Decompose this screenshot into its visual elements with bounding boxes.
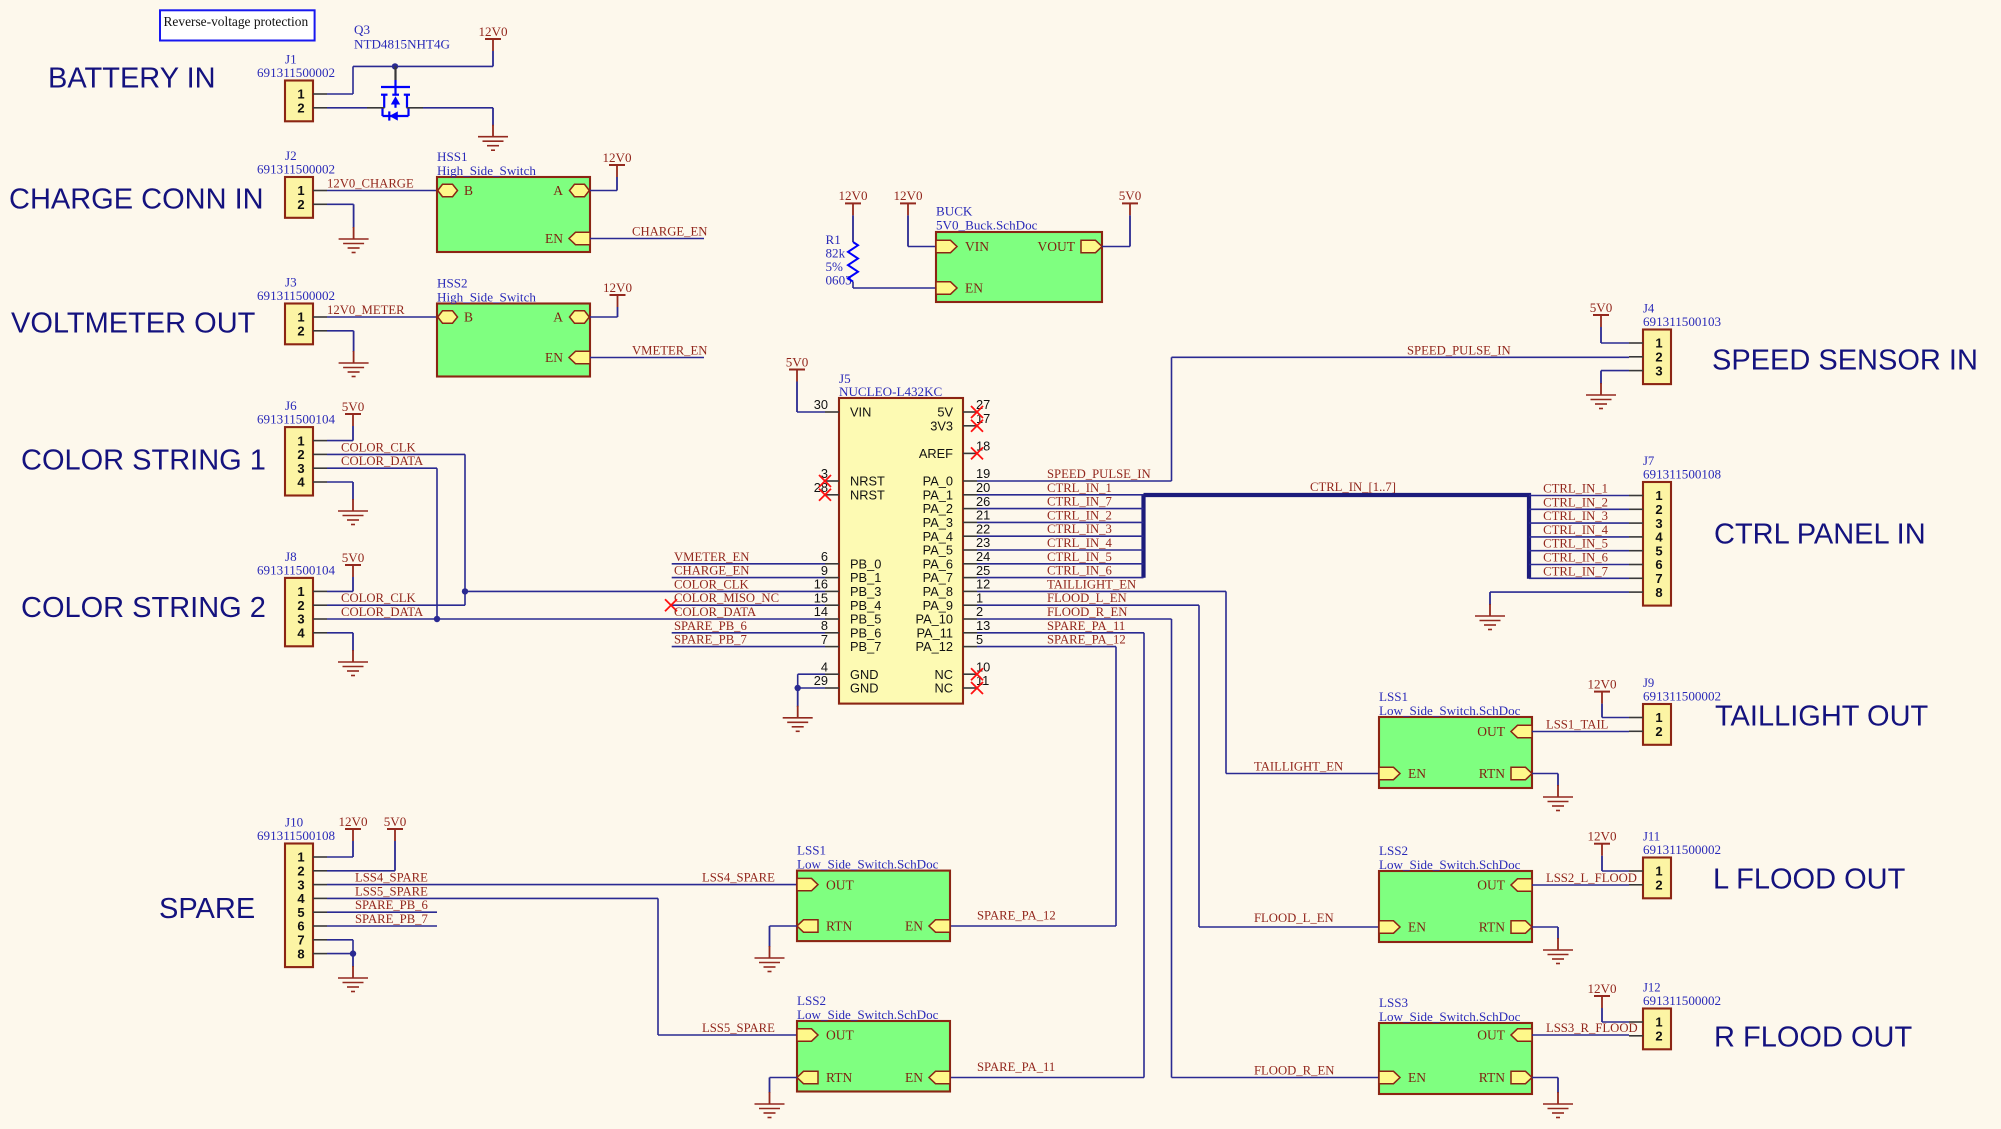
power 5V0 (BUCK VOUT)	[1122, 202, 1138, 204]
svg-text:COLOR_CLK: COLOR_CLK	[674, 577, 750, 591]
svg-text:12V0_CHARGE: 12V0_CHARGE	[327, 177, 414, 191]
svg-text:4: 4	[297, 475, 305, 490]
ground (J7)	[1489, 592, 1491, 605]
wire VMETER_EN from HSS2.EN	[590, 357, 704, 359]
svg-text:RTN: RTN	[1479, 766, 1505, 781]
svg-text:2: 2	[297, 598, 304, 613]
svg-text:VIN: VIN	[965, 239, 989, 254]
svg-text:25: 25	[976, 563, 990, 578]
svg-text:High_Side_Switch: High_Side_Switch	[437, 163, 536, 178]
wire CTRL_IN_1 bus to J7.1	[1529, 495, 1629, 497]
svg-text:12V0: 12V0	[602, 150, 632, 165]
wire CTRL_IN_3 bus to J7.3	[1529, 522, 1629, 524]
wire LSS2(spare).RTN to ground	[770, 1077, 798, 1079]
svg-text:CTRL_IN_1: CTRL_IN_1	[1543, 482, 1608, 496]
power 12V0 (battery)	[485, 38, 501, 40]
svg-text:BUCK: BUCK	[936, 204, 973, 219]
wire 12V0 to BUCK.VIN	[908, 246, 937, 248]
svg-text:3: 3	[297, 877, 304, 892]
svg-text:SPARE: SPARE	[159, 893, 255, 925]
wire COLOR_MISO_NC to PB_4 with no-connect X	[670, 604, 825, 606]
connector J8 (691311500104)	[285, 578, 313, 646]
wire CTRL_IN_7 from NUCLEO to bus	[977, 508, 1144, 510]
svg-text:PA_8: PA_8	[923, 584, 953, 599]
sheet symbol HSS2 High_Side_Switch	[437, 304, 590, 377]
wire J6.1 to 5V0	[327, 440, 353, 442]
svg-text:COLOR STRING 2: COLOR STRING 2	[21, 592, 266, 624]
svg-text:CTRL_IN_2: CTRL_IN_2	[1543, 495, 1608, 509]
svg-text:PA_9: PA_9	[923, 598, 953, 613]
svg-text:FLOOD_L_EN: FLOOD_L_EN	[1047, 591, 1127, 605]
svg-text:691311500002: 691311500002	[257, 65, 335, 80]
svg-text:LSS5_SPARE: LSS5_SPARE	[702, 1021, 775, 1035]
svg-text:COLOR_CLK: COLOR_CLK	[341, 440, 417, 454]
svg-text:12V0_METER: 12V0_METER	[327, 303, 405, 317]
svg-text:13: 13	[976, 618, 990, 633]
svg-text:2: 2	[297, 197, 304, 212]
svg-text:COLOR_DATA: COLOR_DATA	[341, 454, 424, 468]
svg-text:HSS1: HSS1	[437, 149, 468, 164]
svg-text:SPEED_PULSE_IN: SPEED_PULSE_IN	[1407, 343, 1511, 357]
svg-text:8: 8	[821, 618, 828, 633]
wire Q3 source to ground	[423, 107, 493, 109]
wire J3.2 to ground	[327, 330, 354, 332]
wire BUCK.VOUT to 5V0	[1102, 246, 1130, 248]
svg-text:NRST: NRST	[850, 487, 885, 502]
svg-text:PB_5: PB_5	[850, 612, 881, 627]
svg-text:VIN: VIN	[850, 405, 871, 420]
svg-text:7: 7	[1655, 571, 1662, 586]
svg-text:LSS2_L_FLOOD: LSS2_L_FLOOD	[1546, 871, 1637, 885]
svg-text:12V0: 12V0	[338, 814, 368, 829]
power 12V0 (BUCK VIN)	[900, 202, 916, 204]
svg-text:R FLOOD OUT: R FLOOD OUT	[1714, 1022, 1912, 1054]
sheet symbol LSS2 Low_Side_Switch.SchDoc (spare)	[797, 1021, 950, 1092]
note box: Reverse-voltage protection	[160, 10, 315, 40]
svg-text:COLOR_DATA: COLOR_DATA	[341, 605, 424, 619]
svg-text:L FLOOD OUT: L FLOOD OUT	[1713, 864, 1906, 896]
svg-text:LSS2: LSS2	[797, 993, 826, 1008]
svg-text:2: 2	[297, 324, 304, 339]
svg-text:CTRL_IN_6: CTRL_IN_6	[1047, 564, 1112, 578]
sheet symbol LSS2 Low_Side_Switch.SchDoc	[1379, 871, 1532, 942]
svg-text:5V0_Buck.SchDoc: 5V0_Buck.SchDoc	[936, 218, 1038, 233]
svg-text:CTRL_IN_6: CTRL_IN_6	[1543, 551, 1608, 565]
svg-text:A: A	[553, 183, 563, 198]
wire TAILLIGHT_EN from PA_8	[977, 590, 1226, 592]
wire VMETER_EN to PB_0	[672, 563, 825, 565]
svg-text:691311500002: 691311500002	[1643, 689, 1721, 704]
wire FLOOD_R_EN from PA_10	[977, 618, 1172, 620]
no-connect X marks on 5V 3V3 AREF NRST NC pins	[971, 406, 983, 418]
svg-text:2: 2	[976, 604, 983, 619]
svg-text:5: 5	[1655, 543, 1662, 558]
svg-text:5V0: 5V0	[384, 814, 407, 829]
ground (J8)	[352, 633, 354, 651]
svg-text:30: 30	[814, 397, 828, 412]
wire COLOR_CLK J8.2	[327, 604, 465, 606]
power 12V0 (J10)	[345, 828, 361, 830]
svg-text:High_Side_Switch: High_Side_Switch	[437, 290, 536, 305]
svg-text:CTRL_IN_7: CTRL_IN_7	[1047, 495, 1112, 509]
wire LSS5_SPARE J10.4	[327, 897, 658, 899]
wire J12.1 to 12V0	[1602, 1021, 1629, 1023]
svg-text:1: 1	[297, 87, 304, 102]
svg-text:B: B	[464, 310, 473, 325]
svg-text:4: 4	[1655, 530, 1663, 545]
sheet symbol LSS3 Low_Side_Switch.SchDoc	[1379, 1023, 1532, 1094]
svg-text:3V3: 3V3	[930, 418, 953, 433]
wire SPARE_PB_7 J10.6	[327, 925, 437, 927]
svg-text:2: 2	[297, 101, 304, 116]
wire LSS4_SPARE J10.3 to LSS1.OUT	[327, 884, 797, 886]
wire CTRL_IN_6 bus to J7.6	[1529, 564, 1629, 566]
svg-text:5V0: 5V0	[342, 550, 365, 565]
svg-text:PB_7: PB_7	[850, 639, 881, 654]
svg-text:FLOOD_R_EN: FLOOD_R_EN	[1047, 605, 1127, 619]
svg-text:NC: NC	[935, 681, 953, 696]
svg-text:PA_0: PA_0	[923, 474, 953, 489]
power 12V0 (HSS1)	[609, 164, 625, 166]
svg-text:8: 8	[1655, 585, 1662, 600]
power 5V0 (NUCLEO VIN)	[789, 369, 805, 371]
ground (J4)	[1600, 371, 1602, 384]
svg-text:3: 3	[1655, 363, 1662, 378]
wire COLOR_CLK to PB_3	[465, 590, 825, 592]
svg-text:1: 1	[1655, 864, 1662, 879]
ground (J6)	[352, 482, 354, 500]
svg-text:23: 23	[976, 535, 990, 550]
svg-text:1: 1	[297, 310, 304, 325]
connector J6 (691311500104)	[285, 427, 313, 495]
component J5 NUCLEO-L432KC	[839, 398, 963, 704]
svg-text:PA_4: PA_4	[923, 529, 953, 544]
power 12V0 (J12)	[1594, 995, 1610, 997]
svg-text:PB_3: PB_3	[850, 584, 881, 599]
svg-text:7: 7	[821, 632, 828, 647]
connector J12 (691311500002)	[1643, 1009, 1671, 1050]
svg-text:NUCLEO-L432KC: NUCLEO-L432KC	[839, 384, 943, 399]
wire CTRL_IN_2 from NUCLEO to bus	[977, 521, 1144, 523]
svg-text:691311500108: 691311500108	[257, 828, 336, 843]
svg-text:NRST: NRST	[850, 474, 885, 489]
svg-text:15: 15	[814, 590, 828, 605]
svg-text:12V0: 12V0	[838, 188, 868, 203]
svg-text:0603: 0603	[826, 273, 853, 288]
wire J8.1 to 5V0	[327, 590, 353, 592]
power 12V0 (HSS2)	[610, 294, 626, 296]
wire FLOOD_L_EN from PA_9	[977, 604, 1199, 606]
svg-text:3: 3	[297, 461, 304, 476]
wire SPARE_PB_6 J10.5	[327, 911, 437, 913]
wire J10.1 to 12V0	[327, 856, 353, 858]
svg-text:CTRL_IN_5: CTRL_IN_5	[1543, 537, 1608, 551]
svg-text:21: 21	[976, 508, 990, 523]
svg-text:1: 1	[976, 590, 983, 605]
sheet symbol HSS1 High_Side_Switch	[437, 177, 590, 252]
svg-text:EN: EN	[1408, 920, 1426, 935]
svg-text:1: 1	[297, 433, 304, 448]
svg-text:CHARGE_EN: CHARGE_EN	[674, 564, 749, 578]
svg-text:PB_6: PB_6	[850, 625, 881, 640]
bus CTRL_IN[1..7]	[1144, 495, 1530, 579]
svg-text:EN: EN	[1408, 1070, 1426, 1085]
svg-text:1: 1	[297, 584, 304, 599]
svg-text:CTRL_IN_5: CTRL_IN_5	[1047, 550, 1112, 564]
wire CTRL_IN_6 from NUCLEO to bus	[977, 577, 1144, 579]
wire CTRL_IN_7 bus to J7.7	[1529, 577, 1629, 579]
svg-text:2: 2	[1655, 1029, 1662, 1044]
svg-text:2: 2	[297, 864, 304, 879]
connector J4 (691311500103)	[1643, 330, 1671, 385]
svg-text:LSS4_SPARE: LSS4_SPARE	[702, 871, 775, 885]
wire HSS2.A to 12V0	[590, 316, 618, 318]
svg-text:5V: 5V	[937, 405, 953, 420]
svg-text:1: 1	[1655, 488, 1662, 503]
wire J1.1 to drain node	[327, 93, 353, 95]
wire COLOR_DATA J8.3	[327, 618, 437, 620]
svg-text:CHARGE_EN: CHARGE_EN	[632, 225, 707, 239]
connector J2 (691311500002)	[285, 177, 313, 218]
svg-text:VMETER_EN: VMETER_EN	[674, 550, 749, 564]
svg-text:OUT: OUT	[1477, 878, 1505, 893]
svg-text:RTN: RTN	[1479, 920, 1505, 935]
wire CHARGE_EN from HSS1.EN	[590, 238, 704, 240]
wire LSS1(spare).RTN to ground	[770, 925, 798, 927]
svg-text:PA_10: PA_10	[916, 612, 953, 627]
svg-text:12V0: 12V0	[1587, 829, 1617, 844]
svg-text:2: 2	[1655, 350, 1662, 365]
svg-text:EN: EN	[545, 231, 563, 246]
svg-text:1: 1	[1655, 1015, 1662, 1030]
svg-text:NC: NC	[935, 667, 953, 682]
svg-text:4: 4	[821, 659, 828, 674]
svg-text:RTN: RTN	[1479, 1070, 1505, 1085]
svg-text:COLOR STRING 1: COLOR STRING 1	[21, 445, 266, 477]
wire LSS3_R_FLOOD to J12.2	[1532, 1034, 1629, 1036]
svg-text:12V0: 12V0	[1587, 676, 1617, 691]
svg-text:SPARE_PB_6: SPARE_PB_6	[674, 619, 747, 633]
svg-text:12: 12	[976, 577, 990, 592]
svg-text:5V0: 5V0	[786, 354, 809, 369]
svg-text:CTRL_IN_2: CTRL_IN_2	[1047, 508, 1112, 522]
junction COLOR_DATA	[434, 616, 440, 622]
wire LSS3.RTN to ground	[1532, 1077, 1558, 1079]
svg-text:PB_0: PB_0	[850, 556, 881, 571]
svg-text:GND: GND	[850, 681, 878, 696]
svg-text:Reverse-voltage protection: Reverse-voltage protection	[164, 14, 309, 29]
svg-text:PA_2: PA_2	[923, 501, 953, 516]
wire HSS1.A to 12V0	[590, 190, 617, 192]
svg-text:TAILLIGHT_EN: TAILLIGHT_EN	[1047, 577, 1136, 591]
svg-text:CHARGE CONN IN: CHARGE CONN IN	[9, 184, 264, 216]
svg-text:LSS3_R_FLOOD: LSS3_R_FLOOD	[1546, 1021, 1638, 1035]
ground (J2)	[353, 204, 355, 228]
svg-text:TAILLIGHT OUT: TAILLIGHT OUT	[1715, 701, 1929, 733]
ground (battery)	[492, 108, 494, 126]
svg-text:5: 5	[976, 632, 983, 647]
connector J9 (691311500002)	[1643, 704, 1671, 745]
svg-text:OUT: OUT	[826, 1028, 854, 1043]
sheet symbol LSS1 Low_Side_Switch.SchDoc	[1379, 717, 1532, 788]
svg-text:5V0: 5V0	[1590, 300, 1613, 315]
svg-text:4: 4	[297, 891, 305, 906]
svg-text:5: 5	[297, 905, 304, 920]
svg-text:CTRL_IN_4: CTRL_IN_4	[1047, 536, 1113, 550]
svg-text:12V0: 12V0	[893, 188, 923, 203]
svg-text:COLOR_DATA: COLOR_DATA	[674, 605, 757, 619]
wire SPEED_PULSE_IN from PA_0	[977, 480, 1172, 482]
svg-text:COLOR_CLK: COLOR_CLK	[341, 591, 417, 605]
wire J11.1 to 12V0	[1602, 870, 1629, 872]
svg-text:Low_Side_Switch.SchDoc: Low_Side_Switch.SchDoc	[1379, 703, 1521, 718]
svg-text:691311500104: 691311500104	[257, 412, 336, 427]
svg-text:EN: EN	[545, 350, 563, 365]
wire CHARGE_EN to PB_1	[672, 577, 825, 579]
svg-text:691311500108: 691311500108	[1643, 467, 1722, 482]
svg-text:PB_1: PB_1	[850, 570, 881, 585]
svg-text:6: 6	[1655, 557, 1662, 572]
wire J4.1 to 5V0	[1601, 342, 1629, 344]
ground (J3)	[353, 331, 355, 352]
power 12V0 (J9)	[1594, 691, 1610, 693]
svg-text:PA_1: PA_1	[923, 487, 953, 502]
svg-text:12V0: 12V0	[1587, 981, 1617, 996]
svg-text:12V0: 12V0	[603, 280, 633, 295]
connector J7 (691311500108)	[1643, 482, 1671, 606]
svg-text:20: 20	[976, 480, 990, 495]
wire J10.7 J10.8 to ground	[327, 939, 353, 941]
svg-text:1: 1	[1655, 336, 1662, 351]
svg-text:12V0: 12V0	[478, 24, 508, 39]
svg-text:EN: EN	[965, 281, 983, 296]
svg-text:5V0: 5V0	[1119, 188, 1142, 203]
ground (J10)	[352, 954, 354, 967]
svg-text:3: 3	[297, 612, 304, 627]
svg-text:LSS3: LSS3	[1379, 995, 1409, 1010]
svg-text:4: 4	[297, 626, 305, 641]
wire COLOR_DATA vertical	[436, 468, 438, 619]
wire LSS2.RTN to ground	[1532, 926, 1558, 928]
svg-text:7: 7	[297, 933, 304, 948]
wire COLOR_DATA J6.3	[327, 467, 437, 469]
svg-text:BATTERY IN: BATTERY IN	[48, 63, 216, 95]
junction drain node	[392, 63, 398, 69]
svg-text:1: 1	[1655, 710, 1662, 725]
svg-text:RTN: RTN	[826, 1070, 852, 1085]
svg-text:PA_6: PA_6	[923, 556, 953, 571]
svg-text:Q3: Q3	[354, 22, 370, 37]
svg-text:VOUT: VOUT	[1038, 239, 1076, 254]
svg-text:1: 1	[297, 850, 304, 865]
svg-text:EN: EN	[905, 1070, 923, 1085]
svg-text:SPEED_PULSE_IN: SPEED_PULSE_IN	[1047, 467, 1151, 481]
svg-text:2: 2	[1655, 502, 1662, 517]
svg-text:3: 3	[1655, 516, 1662, 531]
svg-text:CTRL_IN_1: CTRL_IN_1	[1047, 481, 1112, 495]
wire J4.3 to ground	[1601, 370, 1629, 372]
wire 12V0_CHARGE J2.1 to HSS1.B	[327, 190, 439, 192]
svg-text:SPARE_PB_7: SPARE_PB_7	[355, 912, 428, 926]
svg-text:SPARE_PA_12: SPARE_PA_12	[977, 909, 1056, 923]
svg-text:691311500104: 691311500104	[257, 562, 336, 577]
svg-text:LSS1: LSS1	[1379, 689, 1408, 704]
sheet symbol LSS1 Low_Side_Switch.SchDoc (spare)	[797, 871, 950, 942]
wire SPARE_PA_12 from PA_12	[977, 646, 1116, 648]
svg-text:9: 9	[821, 563, 828, 578]
svg-text:SPARE_PB_6: SPARE_PB_6	[355, 898, 428, 912]
connector J10 (691311500108)	[285, 844, 313, 968]
svg-text:29: 29	[814, 673, 828, 688]
wire LSS1_TAIL to J9.2	[1532, 731, 1629, 733]
wire SPARE_PB_7 to PB_7	[672, 646, 825, 648]
power 5V0 (J10)	[387, 828, 403, 830]
svg-text:HSS2: HSS2	[437, 276, 468, 291]
wire SPARE_PB_6 to PB_6	[672, 632, 825, 634]
svg-text:GND: GND	[850, 667, 878, 682]
svg-text:A: A	[553, 310, 563, 325]
wire COLOR_DATA to PB_5	[437, 618, 825, 620]
svg-text:FLOOD_L_EN: FLOOD_L_EN	[1254, 911, 1334, 925]
svg-text:CTRL_IN_4: CTRL_IN_4	[1543, 523, 1609, 537]
wire J9.1 to 12V0	[1602, 717, 1629, 719]
svg-text:2: 2	[1655, 878, 1662, 893]
wire CTRL_IN_3 from NUCLEO to bus	[977, 535, 1144, 537]
wire 12V0_METER J3.1 to HSS2.B	[327, 316, 439, 318]
svg-text:CTRL_IN_3: CTRL_IN_3	[1047, 522, 1112, 536]
svg-text:1: 1	[297, 183, 304, 198]
svg-text:B: B	[464, 183, 473, 198]
svg-text:COLOR_MISO_NC: COLOR_MISO_NC	[674, 591, 779, 605]
svg-text:SPARE_PA_11: SPARE_PA_11	[1047, 619, 1125, 633]
svg-text:TAILLIGHT_EN: TAILLIGHT_EN	[1254, 760, 1343, 774]
svg-text:691311500002: 691311500002	[1643, 842, 1721, 857]
wire COLOR_CLK vertical	[464, 454, 466, 605]
svg-text:SPEED SENSOR IN: SPEED SENSOR IN	[1712, 345, 1978, 377]
svg-text:AREF: AREF	[919, 446, 953, 461]
connector J3 (691311500002)	[285, 304, 313, 345]
svg-text:2: 2	[297, 447, 304, 462]
svg-text:LSS5_SPARE: LSS5_SPARE	[355, 884, 428, 898]
wire CTRL_IN_2 bus to J7.2	[1529, 508, 1629, 510]
svg-text:6: 6	[821, 549, 828, 564]
junction J10 ground	[350, 950, 356, 956]
sheet symbol BUCK 5V0_Buck.SchDoc	[936, 232, 1102, 302]
svg-text:19: 19	[976, 466, 990, 481]
wire J8.4 to ground	[327, 632, 353, 634]
svg-text:8: 8	[297, 946, 304, 961]
svg-text:691311500002: 691311500002	[1643, 993, 1721, 1008]
svg-text:CTRL_IN_3: CTRL_IN_3	[1543, 509, 1608, 523]
wire SPARE_PA_11 from PA_11	[977, 632, 1144, 634]
svg-text:LSS1: LSS1	[797, 843, 826, 858]
svg-text:PA_7: PA_7	[923, 570, 953, 585]
wire CTRL_IN_4 from NUCLEO to bus	[977, 549, 1144, 551]
wire J7.8 to ground	[1490, 591, 1629, 593]
svg-text:OUT: OUT	[826, 877, 854, 892]
wire R1 to BUCK.EN	[852, 282, 854, 288]
svg-text:CTRL_IN_7: CTRL_IN_7	[1543, 564, 1608, 578]
svg-text:PA_11: PA_11	[916, 625, 953, 640]
wire LSS2_L_FLOOD to J11.2	[1532, 884, 1629, 886]
svg-text:LSS2: LSS2	[1379, 843, 1408, 858]
svg-text:691311500002: 691311500002	[257, 288, 335, 303]
svg-text:691311500103: 691311500103	[1643, 314, 1722, 329]
svg-text:PA_5: PA_5	[923, 543, 953, 558]
wire J6.4 to ground	[327, 481, 353, 483]
power 5V0 (J4)	[1593, 314, 1609, 316]
wire J2.2 to ground	[327, 203, 354, 205]
